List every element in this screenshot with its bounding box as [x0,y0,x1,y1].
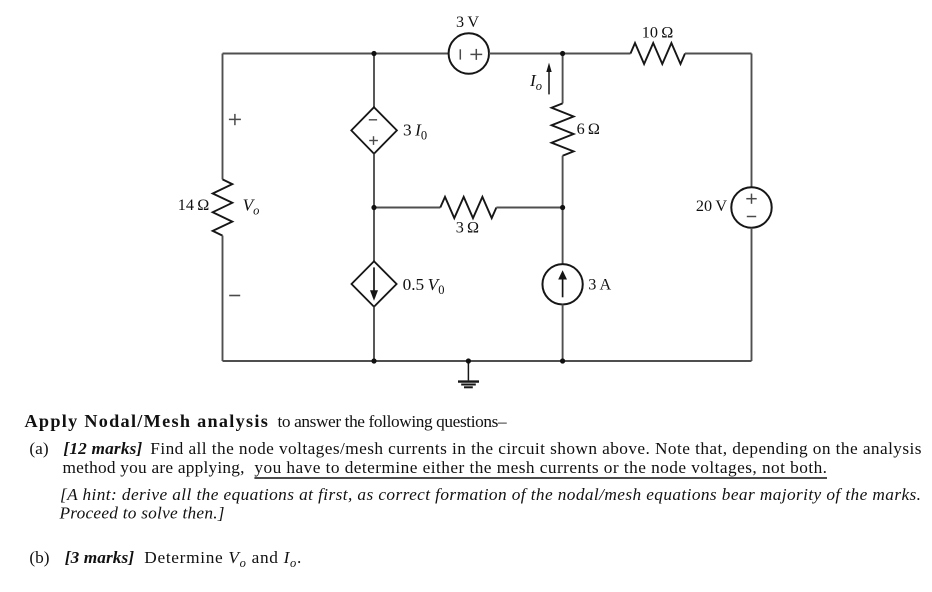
wire mid2 middle segment (6-ohm to mid node to 3A source) [562,156,564,264]
wire mid horizontal right (3-ohm to node) [496,207,562,209]
svg-text:[3 marks]: [3 marks] [65,548,135,567]
svg-text:20 V: 20 V [696,197,727,215]
svg-text:Determine Vo and Io.: Determine Vo and Io. [144,548,301,570]
wire left upper segment [222,54,224,180]
svg-text:[12 marks]: [12 marks] [63,439,142,458]
node junction dot bottom-ground [466,358,471,363]
wire right lower segment [751,228,753,361]
problem statement text [25,411,922,570]
node junction dot mid-right [560,205,565,210]
value label 3 A [588,276,611,294]
node junction dot mid-left [371,205,376,210]
node junction dot bottom-right [560,358,565,363]
wire left lower segment [222,236,224,361]
current source I1 3A (circle with up arrow) [542,264,582,304]
svg-text:3 I0: 3 I0 [403,121,427,143]
svg-text:[A hint: derive all the equati: [A hint: derive all the equations at fir… [60,485,921,504]
svg-text:10 Ω: 10 Ω [642,24,673,42]
value label 3 V [456,13,479,31]
svg-text:Find all the node voltages/mes: Find all the node voltages/mesh currents… [150,439,921,458]
wire top-right segment (10-ohm to top-right corner) [685,53,752,55]
current label Io with arrow [529,63,552,95]
svg-text:Vo: Vo [243,195,260,217]
ground symbol [458,361,479,387]
svg-text:(b): (b) [29,548,49,567]
resistor R10 10 ohm [631,43,686,64]
value label 3 I0 [403,121,427,143]
svg-text:Io: Io [529,71,542,93]
svg-text:Apply Nodal/Mesh analysis: Apply Nodal/Mesh analysis [25,411,268,431]
resistor R3 3 ohm [440,197,496,218]
wire mid horizontal left (node to 3-ohm) [374,207,440,209]
svg-text:to answer the following questi: to answer the following questions– [278,412,507,431]
wire mid2 lower segment [562,304,564,361]
voltage source V2 20V [731,187,771,227]
value label 0.5 V0 [403,275,445,297]
wire mid1 upper (top node to dependent source) [373,54,375,108]
svg-text:3 Ω: 3 Ω [456,219,479,237]
svg-text:method you are applying,: method you are applying, [63,458,245,477]
value label 6 ohm [577,120,600,138]
voltage source V1 3V [449,33,489,73]
value label 10 ohm [642,24,673,42]
value label 14 ohm [178,196,209,214]
wire top-left segment (top node A to 3V source) [223,53,449,55]
node junction dot top-B [560,51,565,56]
svg-text:Proceed to solve then.]: Proceed to solve then.] [59,504,225,523]
wire bottom segment [223,360,752,362]
node label Vo (voltage across R14) [243,195,260,217]
wire right upper segment [751,54,753,188]
polarity minus for Vo [229,295,240,297]
dependent voltage source 3*I0 (diamond) [351,107,397,154]
svg-text:14 Ω: 14 Ω [178,196,209,214]
svg-text:3 V: 3 V [456,13,479,31]
svg-text:0.5 V0: 0.5 V0 [403,275,445,297]
dependent current source 0.5*V0 (diamond with down arrow) [352,261,397,306]
svg-text:you have to determine either t: you have to determine either the mesh cu… [254,458,827,477]
wire mid1 lower segment [373,307,375,361]
wire mid1 middle segment [373,154,375,262]
node junction dot bottom-left [371,358,376,363]
node junction dot top-A [371,51,376,56]
resistor R6 6 ohm [552,103,574,155]
svg-text:(a): (a) [29,439,48,458]
wire mid2 upper (top node to 6-ohm) [562,54,564,104]
value label 20 V [696,197,727,215]
resistor R14 14 ohm [213,179,233,235]
svg-text:6 Ω: 6 Ω [577,120,600,138]
value label 3 ohm [456,219,479,237]
polarity plus for Vo [229,114,241,125]
wire top-mid segment (3V source to 10-ohm resistor) [489,53,631,55]
svg-text:3 A: 3 A [588,276,611,294]
